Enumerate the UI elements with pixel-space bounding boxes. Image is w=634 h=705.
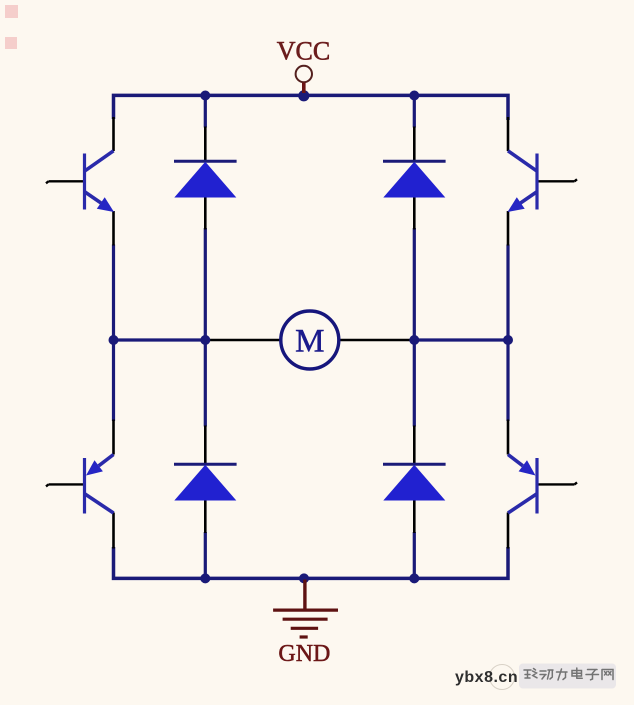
faint artifact marks top-left bbox=[5, 5, 18, 49]
diode D3 (bottom-left) bbox=[174, 464, 237, 500]
wire bottom rail GND net bbox=[114, 547, 509, 578]
diode D4 (bottom-right) bbox=[383, 464, 446, 500]
watermark ybx8.cn bbox=[455, 665, 518, 690]
power VCC terminal bbox=[296, 66, 312, 93]
node junction top rail left diode column bbox=[200, 91, 210, 101]
ground symbol bbox=[273, 580, 338, 638]
node junction bottom rail right diode column bbox=[409, 573, 419, 583]
wire Q1 base lead bbox=[46, 181, 84, 183]
node junction top rail VCC bbox=[298, 90, 309, 101]
node junction mid rail right bbox=[503, 335, 513, 345]
wire top rail VCC net bbox=[114, 95, 509, 120]
wire right rail middle segment bbox=[506, 245, 509, 422]
wire motor left lead bbox=[205, 339, 280, 342]
wire Q3 emitter pin lower bbox=[112, 513, 115, 549]
wire Q2 base lead bbox=[538, 179, 578, 181]
transistor Q3 (bottom-left PNP) bbox=[85, 455, 114, 514]
wire D3 anode pin bbox=[204, 426, 207, 465]
node junction top rail right diode column bbox=[409, 91, 419, 101]
wire mid rail right segment bbox=[414, 338, 510, 341]
node junction mid rail left diode column bbox=[200, 335, 210, 345]
wire mid rail left segment bbox=[112, 338, 205, 341]
wire D3 cathode pin bbox=[204, 500, 207, 533]
node junction mid rail left bbox=[109, 335, 119, 345]
diode D2 (top-right) bbox=[383, 161, 446, 197]
wire left diode column bottom stub bbox=[204, 532, 207, 578]
wire Q4 emitter pin lower bbox=[507, 513, 510, 549]
transistor Q1 (top-left NPN) bbox=[85, 151, 115, 212]
wire D4 anode pin bbox=[413, 426, 416, 465]
wire Q2 emitter pin bbox=[507, 211, 510, 246]
wire Q3 base lead bbox=[46, 484, 84, 486]
wire D1 anode pin upper (net stub) bbox=[204, 96, 207, 128]
wire left rail middle segment bbox=[112, 245, 115, 422]
wire D2 cathode pin bbox=[413, 197, 416, 230]
node junction bottom rail left diode column bbox=[200, 573, 210, 583]
wire Q1 emitter pin bbox=[112, 211, 115, 246]
svg-text:M: M bbox=[295, 324, 324, 360]
svg-text:GND: GND bbox=[278, 641, 330, 667]
wire D2 anode pin upper (net stub) bbox=[413, 96, 416, 128]
transistor Q4 (bottom-right PNP) bbox=[508, 455, 537, 514]
wire right diode column upper-lower segment bbox=[413, 228, 416, 341]
diode D1 (top-left) bbox=[174, 161, 237, 197]
wire Q4 base lead bbox=[538, 482, 578, 484]
wire D2 anode pin lower bbox=[413, 127, 416, 162]
motor M1 bbox=[281, 311, 339, 369]
svg-text:VCC: VCC bbox=[277, 37, 330, 66]
wire left diode column lower-upper segment bbox=[204, 340, 207, 427]
wire Q1 collector pin bbox=[112, 117, 115, 151]
wire right diode column lower-upper segment bbox=[413, 340, 416, 427]
watermark chinese site name (vector pseudo-glyphs) bbox=[519, 664, 616, 689]
svg-text:ybx8.cn: ybx8.cn bbox=[455, 669, 518, 686]
wire right diode column bottom stub bbox=[413, 532, 416, 578]
node junction mid rail right diode column bbox=[409, 335, 419, 345]
wire Q2 collector pin bbox=[507, 117, 510, 151]
node junction bottom rail GND bbox=[299, 573, 309, 583]
wire D4 cathode pin bbox=[413, 500, 416, 533]
wire D1 cathode pin bbox=[204, 197, 207, 230]
wire motor right lead bbox=[340, 339, 415, 342]
wire Q4 collector pin upper bbox=[507, 420, 510, 455]
transistor Q2 (top-right NPN) bbox=[508, 151, 538, 212]
wire Q3 collector pin upper bbox=[112, 420, 115, 455]
wire left diode column upper-lower segment bbox=[204, 228, 207, 341]
wire D1 anode pin lower bbox=[204, 127, 207, 162]
